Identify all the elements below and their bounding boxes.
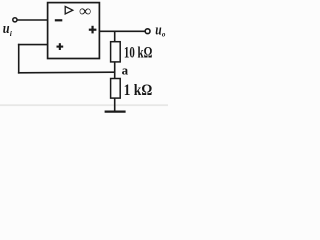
ground <box>105 110 126 112</box>
wire: resistor R2 to ground <box>114 98 116 111</box>
wire: left vertical feedback segment <box>18 44 20 74</box>
wire: input terminal to inverting input <box>17 19 47 21</box>
wire: non-inverting input left segment <box>18 44 48 46</box>
svg-text:u: u <box>155 22 161 38</box>
svg-text:10 kΩ: 10 kΩ <box>124 45 152 62</box>
wire: node a to resistor R2 <box>114 72 116 79</box>
wire: op-amp output to terminal <box>99 30 145 32</box>
resistor R2 1 kOhm body <box>111 79 121 99</box>
input terminal circle <box>13 18 17 22</box>
svg-text:1 kΩ: 1 kΩ <box>124 82 153 99</box>
svg-text:u: u <box>3 21 10 37</box>
wire: bottom feedback segment to node a <box>18 71 115 74</box>
svg-text:o: o <box>162 30 166 38</box>
op-amp gain triangle symbol <box>65 6 73 14</box>
resistor R1 10 kOhm body <box>111 42 121 62</box>
faint page rule line <box>0 104 168 106</box>
svg-text:a: a <box>122 62 129 77</box>
wire: output down to resistor R1 <box>114 31 116 41</box>
output polarity plus sign <box>89 26 97 34</box>
wire: resistor R1 to node a <box>114 62 116 73</box>
svg-text:∞: ∞ <box>79 3 91 20</box>
output terminal circle <box>145 29 150 34</box>
non-inverting input plus sign <box>57 43 64 50</box>
inverting input minus sign <box>55 19 63 21</box>
op-amp U1 body <box>48 3 100 59</box>
